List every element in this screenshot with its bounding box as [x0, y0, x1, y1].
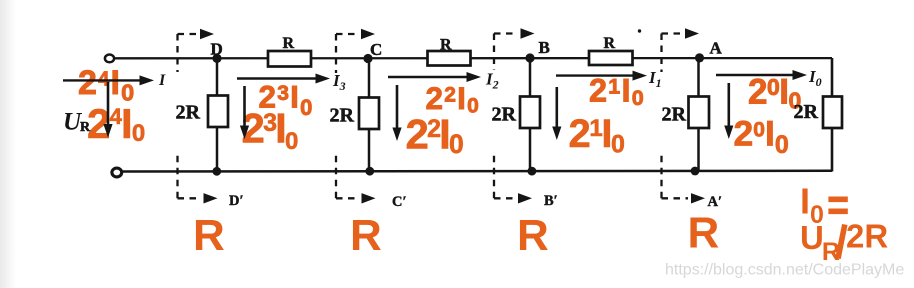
svg-text:B′: B′: [544, 193, 558, 209]
junction bottom C': [365, 167, 374, 176]
svg-text:2R: 2R: [846, 218, 888, 255]
svg-text:C: C: [370, 40, 382, 59]
current arrow I2: [388, 76, 467, 78]
resistor 2R branch A: [689, 97, 710, 129]
current arrow branch A down: [727, 83, 730, 126]
current arrow UR down: [107, 82, 110, 124]
terminal top-left: [105, 55, 114, 63]
svg-text:24I0: 24I0: [87, 100, 145, 147]
svg-text:I3: I3: [332, 71, 346, 93]
resistor 2R branch B: [520, 97, 540, 129]
current arrow I3: [237, 77, 316, 79]
junction node B: [525, 53, 534, 62]
speck dot: [638, 29, 641, 32]
junction node C: [363, 54, 372, 63]
wire branch B: [529, 58, 532, 171]
resistor 2R branch D: [208, 96, 228, 128]
svg-text:I0: I0: [808, 67, 822, 89]
svg-text:D′: D′: [229, 193, 244, 209]
svg-text:2R: 2R: [794, 101, 819, 123]
current arrow branch C down: [396, 85, 399, 128]
junction bottom A': [691, 167, 700, 176]
svg-text:R: R: [604, 35, 616, 52]
svg-text:https://blog.csdn.net/CodePlay: https://blog.csdn.net/CodePlayMe: [665, 262, 904, 279]
resistor 2R right end: [823, 97, 842, 129]
svg-text:R: R: [283, 35, 295, 52]
wire right branch: [831, 58, 834, 172]
svg-text:21I0: 21I0: [569, 112, 625, 158]
wire branch A: [697, 58, 700, 171]
dashed marker D section: [178, 34, 202, 198]
svg-text:R: R: [193, 211, 225, 260]
svg-text:R: R: [80, 120, 91, 135]
current arrow branch D down: [243, 86, 246, 126]
svg-text:20I0: 20I0: [734, 114, 789, 160]
svg-text:I2: I2: [485, 70, 499, 92]
current arrow I0: [716, 74, 793, 76]
current arrow I: [63, 79, 140, 81]
current arrow branch B down: [555, 87, 558, 127]
svg-text:D: D: [211, 40, 223, 59]
svg-text:2R: 2R: [330, 104, 355, 126]
junction node A: [695, 53, 704, 62]
wire top rail: [113, 57, 832, 60]
svg-text:I: I: [158, 72, 166, 89]
wire branch C: [368, 58, 371, 171]
svg-text:2R: 2R: [176, 102, 201, 124]
dashed marker C section: [336, 34, 359, 198]
svg-text:C′: C′: [392, 194, 407, 210]
svg-text:R: R: [440, 36, 452, 53]
svg-text:A: A: [710, 39, 723, 58]
wire branch D: [216, 58, 219, 171]
dashed marker A section: [662, 34, 689, 199]
svg-text:R: R: [517, 211, 549, 260]
junction bottom B': [528, 167, 537, 176]
svg-text:I1: I1: [648, 68, 662, 90]
wire bottom rail: [121, 170, 832, 173]
svg-text:UR: UR: [800, 219, 840, 266]
resistor R series D-C: [268, 51, 311, 67]
resistor R series C-B: [428, 51, 471, 66]
svg-text:22I0: 22I0: [426, 80, 480, 117]
svg-text:R: R: [350, 211, 382, 260]
junction bottom D': [212, 167, 221, 176]
terminal bottom-left: [112, 168, 122, 177]
dashed marker B section: [494, 34, 517, 199]
svg-text:2R: 2R: [662, 103, 687, 125]
svg-text:22I0: 22I0: [406, 111, 464, 160]
svg-text:2R: 2R: [492, 103, 517, 125]
junction node D: [212, 54, 221, 63]
svg-text:R: R: [688, 209, 720, 258]
resistor R series B-A: [589, 51, 633, 65]
current arrow I1: [556, 74, 633, 76]
resistor 2R branch C: [359, 98, 379, 130]
svg-text:B: B: [539, 38, 550, 57]
